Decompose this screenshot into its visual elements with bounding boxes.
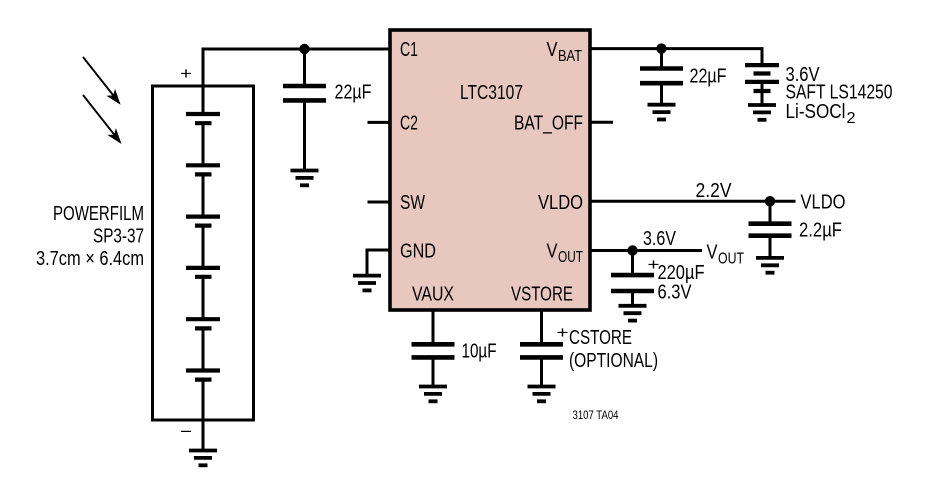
node VOUT output label bbox=[707, 242, 745, 268]
svg-text:VLDO: VLDO bbox=[538, 192, 583, 214]
wire : C2 pin stub bbox=[368, 121, 391, 124]
svg-text:6.3V: 6.3V bbox=[658, 282, 693, 304]
svg-text:V: V bbox=[707, 242, 719, 264]
svg-text:3.6V: 3.6V bbox=[643, 228, 677, 250]
cell 6 bbox=[186, 371, 220, 380]
svg-text:Li-SOCl: Li-SOCl bbox=[786, 101, 846, 123]
svg-text:22µF: 22µF bbox=[690, 66, 727, 88]
ground below VBAT 22uF bbox=[648, 105, 676, 120]
svg-text:OUT: OUT bbox=[558, 249, 583, 266]
svg-text:SP3-37: SP3-37 bbox=[93, 226, 144, 248]
capacitor 22uF (input, at C1) bbox=[283, 49, 326, 171]
svg-text:POWERFILM: POWERFILM bbox=[53, 203, 144, 225]
svg-text:OUT: OUT bbox=[718, 250, 744, 267]
svg-text:3107 TA04: 3107 TA04 bbox=[573, 410, 619, 422]
ground below 2.2uF bbox=[756, 258, 784, 273]
svg-text:C2: C2 bbox=[400, 113, 418, 135]
svg-text:V: V bbox=[547, 39, 559, 61]
wire : VBAT to battery bbox=[590, 49, 762, 65]
wire : BAT_OFF stub bbox=[590, 121, 613, 124]
wire : VLDO net bbox=[590, 200, 796, 203]
ground below 10uF bbox=[419, 387, 447, 402]
svg-text:BAT: BAT bbox=[558, 48, 582, 65]
capacitor 2.2uF bbox=[749, 201, 792, 258]
svg-text:C1: C1 bbox=[400, 39, 418, 61]
ground below CSTORE bbox=[528, 387, 556, 402]
cell 1 bbox=[186, 114, 220, 123]
svg-text:3.7cm × 6.4cm: 3.7cm × 6.4cm bbox=[36, 248, 144, 270]
ground below battery bbox=[748, 105, 776, 120]
cell 3 bbox=[186, 217, 220, 226]
light arrow 1 bbox=[83, 57, 121, 105]
svg-text:2: 2 bbox=[847, 110, 856, 127]
ground at GND pin bbox=[353, 276, 381, 291]
ground below solar panel bbox=[189, 451, 217, 466]
pin VOUT label bbox=[547, 240, 584, 266]
battery SAFT LS14250 bbox=[745, 65, 779, 105]
node junction at 220uF bbox=[627, 245, 637, 255]
wire : GND pin to ground bbox=[367, 250, 390, 276]
svg-text:+: + bbox=[557, 323, 569, 342]
svg-text:LTC3107: LTC3107 bbox=[460, 82, 523, 104]
svg-text:BAT_OFF: BAT_OFF bbox=[514, 113, 583, 135]
cell 4 bbox=[186, 268, 220, 277]
solar panel POWERFILM box bbox=[153, 86, 254, 420]
wire : VOUT net bbox=[590, 249, 702, 252]
svg-text:2.2µF: 2.2µF bbox=[799, 220, 842, 242]
svg-text:SW: SW bbox=[400, 192, 425, 214]
pin VBAT label bbox=[547, 39, 583, 65]
svg-text:10µF: 10µF bbox=[462, 340, 497, 362]
node junction at VBAT 22uF bbox=[656, 43, 666, 53]
svg-text:VLDO: VLDO bbox=[801, 191, 846, 213]
wire : VSTORE pin down bbox=[540, 310, 543, 344]
ground below input 22uF bbox=[291, 171, 319, 186]
svg-text:2.2V: 2.2V bbox=[696, 180, 733, 202]
ground below 220uF bbox=[619, 306, 647, 321]
op-amp U1 : LTC3107 IC body bbox=[390, 30, 590, 310]
capacitor CSTORE bbox=[520, 344, 563, 386]
svg-text:VAUX: VAUX bbox=[412, 283, 454, 305]
svg-text:+: + bbox=[180, 64, 192, 83]
svg-text:V: V bbox=[547, 240, 559, 262]
capacitor 10uF bbox=[412, 344, 455, 386]
capacitor 22uF (VBAT) bbox=[640, 49, 683, 105]
wire : VAUX pin down bbox=[432, 310, 435, 344]
svg-text:22µF: 22µF bbox=[335, 81, 372, 103]
label Li-SOCl2 bbox=[786, 101, 856, 127]
capacitor 220uF 6.3V bbox=[611, 251, 654, 306]
cell 5 bbox=[186, 319, 220, 328]
cell 2 bbox=[186, 165, 220, 174]
wire : SW pin stub bbox=[368, 201, 391, 204]
svg-text:GND: GND bbox=[400, 240, 436, 262]
svg-text:(OPTIONAL): (OPTIONAL) bbox=[569, 350, 658, 372]
node junction at VLDO cap bbox=[765, 196, 775, 206]
wire : solar panel + to C1 pin bbox=[203, 49, 390, 114]
solar cell stack wires bbox=[202, 123, 205, 450]
svg-text:CSTORE: CSTORE bbox=[569, 327, 632, 349]
light arrow 2 bbox=[83, 95, 122, 144]
node junction at 22uF C1 cap bbox=[299, 44, 309, 54]
svg-text:VSTORE: VSTORE bbox=[511, 283, 573, 305]
svg-text:−: − bbox=[180, 422, 192, 441]
